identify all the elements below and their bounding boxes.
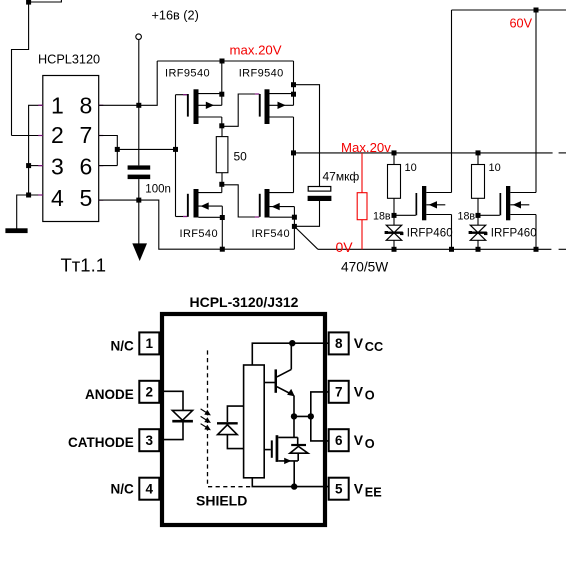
node vcc junction bbox=[289, 340, 295, 346]
svg-text:V: V bbox=[354, 432, 364, 448]
node 0V rail junction left bbox=[220, 247, 225, 252]
label VCC pin8 bbox=[354, 335, 383, 354]
svg-text:O: O bbox=[365, 388, 375, 402]
svg-text:6: 6 bbox=[335, 433, 343, 448]
svg-text:V: V bbox=[354, 384, 364, 400]
label VO pin7 bbox=[354, 384, 375, 403]
wire 47uF feed bbox=[294, 85, 320, 187]
node 0V junction Q6 source bbox=[534, 247, 539, 252]
svg-text:4: 4 bbox=[51, 185, 64, 211]
shield dashed line bbox=[208, 350, 251, 486]
svg-text:50: 50 bbox=[234, 150, 248, 164]
svg-text:EE: EE bbox=[365, 485, 382, 499]
wire lower gate jog to Q4 bbox=[222, 185, 259, 217]
node output junction right bbox=[308, 413, 314, 419]
pin 4 box bbox=[139, 478, 159, 500]
svg-text:IRF540: IRF540 bbox=[252, 228, 290, 240]
svg-text:max.20V: max.20V bbox=[230, 42, 282, 57]
wire Q4 node down to rail end bbox=[293, 217, 295, 249]
ground arrow negative supply bbox=[132, 200, 147, 261]
node 0V junction cell2 bbox=[476, 247, 481, 252]
pin 6 box bbox=[329, 429, 349, 451]
transistor Q4 IRF540 bottom-right bbox=[252, 189, 295, 240]
svg-text:7: 7 bbox=[335, 385, 343, 400]
svg-text:SHIELD: SHIELD bbox=[196, 493, 247, 509]
svg-text:IRFP460: IRFP460 bbox=[491, 228, 537, 240]
pin 7 box bbox=[329, 381, 349, 403]
wire pin3 lead bbox=[29, 165, 44, 167]
svg-text:18в: 18в bbox=[458, 210, 476, 222]
wire upper gate jog to Q2 bbox=[222, 94, 259, 126]
node 60V junction bbox=[534, 8, 539, 13]
wire pin2 lead bbox=[12, 135, 44, 137]
svg-text:ANODE: ANODE bbox=[85, 387, 134, 402]
node top rail junction bbox=[220, 59, 225, 64]
node pin5 junction bbox=[136, 198, 141, 203]
wire vcc to pin8 bbox=[252, 343, 329, 365]
svg-text:CATHODE: CATHODE bbox=[68, 435, 134, 450]
pin stubs purple bbox=[38, 105, 103, 200]
node vee junction bbox=[291, 483, 297, 489]
wire Q2 drain to mid rail bbox=[293, 117, 295, 193]
wire pin6 lead bbox=[311, 416, 330, 441]
svg-text:8: 8 bbox=[80, 93, 93, 119]
svg-text:N/C: N/C bbox=[111, 481, 135, 496]
wire 60V rail bbox=[452, 9, 566, 11]
node cell1 mid rail junction bbox=[392, 150, 397, 155]
wire 47uF return bbox=[294, 201, 319, 226]
wire zener to 0V cell1 bbox=[393, 240, 395, 249]
wire pin6 lead bbox=[99, 165, 118, 167]
wire cap to vee bbox=[138, 179, 140, 200]
resistor R2 470/5W red bbox=[357, 153, 367, 249]
svg-text:2: 2 bbox=[51, 122, 64, 148]
svg-text:Тт1.1: Тт1.1 bbox=[61, 255, 107, 276]
svg-text:7: 7 bbox=[80, 122, 93, 148]
zener D1 18V clamp bbox=[385, 225, 404, 240]
node cap return junction bbox=[292, 224, 297, 229]
wire gate lead cell2 bbox=[478, 214, 500, 216]
svg-text:60V: 60V bbox=[510, 16, 533, 30]
node bridge mid-left lower junction bbox=[219, 182, 224, 187]
svg-text:1: 1 bbox=[146, 336, 154, 351]
wire top input net bbox=[12, 0, 62, 136]
wire pin7 lead bbox=[311, 392, 330, 417]
node Q3 source junction bbox=[220, 215, 225, 220]
pin 8 box bbox=[329, 332, 349, 354]
op-amp U1 functional diagram package outline bbox=[162, 314, 325, 525]
node output junction left bbox=[291, 413, 297, 419]
node 0V junction Q5 source bbox=[449, 247, 454, 252]
wire output node bbox=[294, 415, 311, 417]
transistor Q7 npn bbox=[264, 343, 295, 416]
LED emitter diode bbox=[172, 410, 193, 421]
ground bbox=[5, 228, 27, 233]
node pin8 junction bbox=[136, 103, 141, 108]
op-amp U1 HCPL3120 IC body bbox=[43, 76, 99, 222]
wire Q5 source to 0V bbox=[451, 215, 453, 250]
transistor Q3 IRF540 bottom-left bbox=[176, 184, 223, 240]
zener D2 18V clamp bbox=[469, 225, 488, 240]
svg-text:5: 5 bbox=[80, 185, 93, 211]
pin 2 box bbox=[139, 381, 159, 403]
amplifier block bbox=[244, 365, 265, 478]
wire +16 top rail bbox=[157, 60, 293, 62]
svg-text:470/5W: 470/5W bbox=[341, 259, 388, 274]
svg-text:3: 3 bbox=[51, 153, 64, 179]
wire 0V rail bbox=[318, 248, 566, 250]
node cap feed junction bbox=[291, 82, 296, 87]
wire source to vee rail bbox=[293, 461, 295, 487]
pin 5 box bbox=[329, 478, 349, 500]
diode D3 body diode bbox=[290, 437, 308, 461]
svg-text:HCPL-3120/J312: HCPL-3120/J312 bbox=[190, 294, 299, 310]
svg-text:IRF9540: IRF9540 bbox=[165, 68, 210, 80]
svg-text:3: 3 bbox=[146, 433, 154, 448]
wire Q6 source to 0V bbox=[535, 215, 537, 250]
transistor Q1 IRF9540 top-left bbox=[165, 68, 222, 126]
label VO pin6 bbox=[354, 432, 375, 451]
wire rail right corner down bbox=[293, 61, 295, 94]
svg-text:1: 1 bbox=[51, 93, 64, 119]
svg-text:18в: 18в bbox=[373, 210, 391, 222]
resistor R4 10 bbox=[472, 153, 501, 198]
node bridge mid-left upper junction bbox=[219, 123, 224, 128]
svg-text:CC: CC bbox=[365, 340, 383, 354]
node gate drive junction bbox=[173, 147, 178, 152]
wire pin8 lead to rail bbox=[99, 61, 158, 105]
resistor R1 50 bbox=[216, 126, 247, 185]
svg-text:4: 4 bbox=[146, 481, 154, 496]
svg-text:0V: 0V bbox=[336, 239, 354, 255]
wire Q6 drain to 60V bbox=[535, 10, 537, 193]
svg-text:IRF9540: IRF9540 bbox=[239, 68, 284, 80]
transistor Q8 output mosfet bbox=[264, 416, 298, 464]
capacitor C1 100n bbox=[128, 165, 171, 195]
svg-text:8: 8 bbox=[335, 336, 343, 351]
svg-text:5: 5 bbox=[335, 481, 343, 496]
svg-text:10: 10 bbox=[405, 162, 417, 174]
wire gate drive bbox=[117, 148, 175, 150]
transistor Q5 IRFP460 bbox=[407, 186, 453, 240]
node pin3 junction bbox=[26, 163, 31, 168]
wire R4 to zener bbox=[477, 198, 479, 225]
node Q2 source junction bbox=[291, 92, 296, 97]
svg-text:100n: 100n bbox=[145, 183, 171, 195]
wire vee rail to pin5 bbox=[252, 478, 329, 487]
svg-text:N/C: N/C bbox=[111, 339, 135, 354]
light arrows bbox=[201, 409, 211, 430]
junction top input bbox=[26, 0, 31, 5]
wire cathode lead pin3 bbox=[159, 423, 183, 440]
wire Q3 source to 0V rail bbox=[221, 218, 223, 250]
wire pin2 anode lead bbox=[159, 391, 183, 410]
wire pin1 lead bbox=[29, 105, 44, 195]
wire +16v vertical bbox=[138, 40, 140, 166]
svg-text:47мкф: 47мкф bbox=[323, 169, 360, 183]
resistor R3 10 bbox=[388, 153, 417, 198]
wire pin4 lead to ground bbox=[17, 195, 44, 229]
transistor Q2 IRF9540 top-right bbox=[239, 68, 294, 124]
wire Q1 source to rail bbox=[221, 61, 223, 94]
svg-text:Max.20v: Max.20v bbox=[341, 140, 391, 155]
pin 3 box bbox=[139, 429, 159, 451]
svg-text:V: V bbox=[354, 480, 364, 496]
label VEE pin5 bbox=[354, 480, 382, 499]
transistor Q6 IRFP460 bbox=[491, 186, 537, 240]
wire R3 to zener bbox=[393, 198, 395, 225]
terminal +16v circle bbox=[136, 34, 142, 40]
wire zener to 0V cell2 bbox=[477, 240, 479, 249]
wire diagonal to 0V rail bbox=[294, 226, 318, 249]
svg-text:2: 2 bbox=[146, 385, 154, 400]
wire Max.20v mid rail bbox=[294, 152, 566, 154]
node pin4 junction bbox=[26, 193, 31, 198]
svg-text:6: 6 bbox=[80, 153, 93, 179]
wire left gate bus bbox=[175, 95, 177, 217]
node 18v junction cell2 bbox=[476, 213, 481, 218]
svg-text:V: V bbox=[354, 335, 364, 351]
node Q4 source junction bbox=[292, 215, 297, 220]
svg-text:+16в (2): +16в (2) bbox=[152, 8, 199, 22]
node 0V junction cell1 bbox=[392, 247, 397, 252]
node pins6-7 junction bbox=[115, 147, 120, 152]
photodiode detector bbox=[217, 406, 243, 449]
node 18v junction cell1 bbox=[392, 213, 397, 218]
svg-text:IRF540: IRF540 bbox=[180, 228, 218, 240]
wire pin7 lead bbox=[99, 136, 118, 166]
node Q1 source junction bbox=[219, 92, 224, 97]
wire gate lead cell1 bbox=[394, 214, 416, 216]
svg-text:HCPL3120: HCPL3120 bbox=[38, 53, 100, 67]
node cell2 mid rail junction bbox=[476, 150, 481, 155]
capacitor C2 47uF bbox=[308, 169, 360, 201]
pin 1 box bbox=[139, 332, 159, 354]
node mid rail left junction bbox=[291, 150, 296, 155]
svg-text:10: 10 bbox=[489, 162, 501, 174]
wire pin5 lead to 0V rail bbox=[99, 200, 295, 249]
svg-text:O: O bbox=[365, 437, 375, 451]
wire Q5 drain to 60V bbox=[451, 10, 453, 193]
svg-text:IRFP460: IRFP460 bbox=[407, 228, 453, 240]
